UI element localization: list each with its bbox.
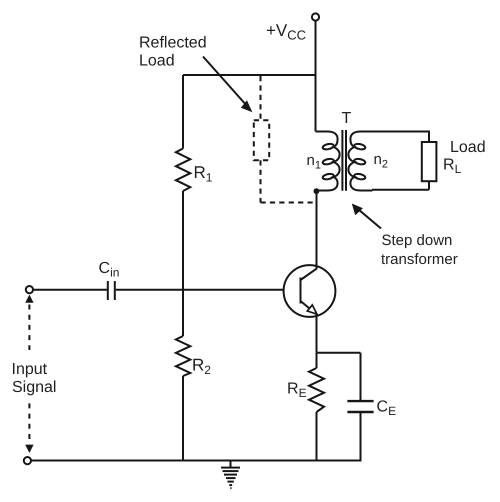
arrowhead step-down	[352, 204, 363, 216]
svg-text:Cin: Cin	[99, 260, 120, 280]
transistor Q1 circle	[284, 265, 336, 317]
wire top horizontal	[183, 74, 316, 76]
svg-text:CE: CE	[377, 399, 397, 419]
svg-text:Load: Load	[139, 53, 175, 70]
svg-text:T: T	[342, 110, 352, 127]
arrowhead emitter	[307, 305, 317, 314]
arrowhead reflected-load	[241, 100, 253, 112]
wire RE top	[316, 353, 318, 368]
capacitor Cin plates	[108, 281, 115, 300]
dashed reflected-load horizontal	[261, 202, 315, 204]
wire Vcc vertical upper	[315, 21, 317, 131]
wire emitter branch to CE	[317, 353, 361, 401]
dashed reflected-load rectangle	[254, 120, 269, 160]
terminal input bottom circle	[24, 457, 31, 464]
svg-text:n2: n2	[374, 151, 388, 171]
arrowhead input lower	[25, 445, 33, 453]
transistor emitter line	[301, 301, 317, 315]
transformer core	[342, 130, 346, 191]
transistor base bar	[300, 278, 302, 304]
wire left branch vertical (R1/R2 column)	[182, 75, 184, 461]
svg-text:RE: RE	[287, 381, 307, 401]
svg-text:R1: R1	[194, 163, 213, 185]
arrowhead input upper	[25, 295, 33, 303]
dashed reflected-load: vertical from top wire	[254, 76, 314, 203]
capacitor CE plates	[347, 401, 373, 412]
svg-text:R2: R2	[192, 356, 211, 378]
wire load bottom	[372, 181, 429, 190]
svg-text:Reflected: Reflected	[139, 35, 207, 52]
ground symbol	[221, 461, 240, 489]
svg-text:n1: n1	[307, 152, 321, 172]
wire bottom horizontal	[32, 460, 362, 462]
arrow step-down pointer	[357, 208, 382, 229]
wire emitter vertical	[316, 314, 318, 353]
svg-text:+VCC: +VCC	[266, 21, 306, 43]
dashed input arrow upper	[28, 305, 30, 351]
wire RE bottom	[316, 412, 318, 461]
dashed input arrow lower	[28, 403, 30, 439]
svg-text:RL: RL	[443, 157, 462, 177]
svg-text:Signal: Signal	[12, 379, 56, 396]
resistor R2	[176, 336, 190, 376]
wire CE to bottom	[360, 413, 362, 461]
junction dot primary bottom	[314, 188, 320, 194]
transformer primary winding n1	[316, 132, 340, 191]
load resistor RL box	[422, 142, 437, 181]
transformer primary curls	[322, 143, 334, 180]
svg-text:transformer: transformer	[381, 251, 458, 268]
arrow reflected-load pointer	[203, 57, 248, 107]
resistor R1	[176, 149, 190, 192]
resistor RE	[309, 368, 324, 412]
transformer secondary winding n2	[348, 132, 372, 191]
terminal +Vcc open circle	[312, 13, 319, 20]
wire input to Cin	[34, 289, 107, 291]
wire Cin to base	[116, 289, 284, 291]
svg-text:Load: Load	[450, 139, 486, 156]
transistor collector line	[301, 268, 318, 280]
dashed reflected-load vertical lower	[260, 160, 262, 202]
svg-text:Input: Input	[12, 361, 48, 378]
transformer secondary curls	[354, 143, 366, 180]
svg-text:Step down: Step down	[382, 232, 453, 249]
terminal input top circle	[26, 286, 33, 293]
wire collector vertical	[316, 191, 318, 269]
wire secondary top to load	[372, 132, 429, 143]
